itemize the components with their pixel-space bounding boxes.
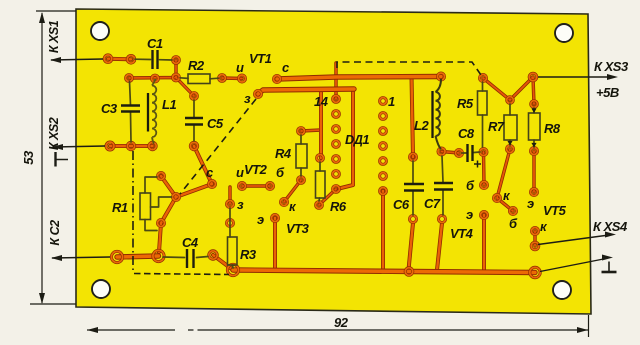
svg-text:К XS4: К XS4 (593, 219, 628, 234)
arrow K C2 (51, 255, 62, 261)
dash-dot shield boundary bottom (134, 274, 229, 275)
svg-text:VT4: VT4 (450, 226, 474, 241)
capacitor C7 (434, 183, 453, 190)
wire R5 leads (482, 82, 484, 147)
wire C4 leads (163, 257, 208, 258)
svg-text:э: э (527, 196, 534, 211)
svg-text:R4: R4 (275, 146, 292, 161)
arrow K XS2 (52, 144, 63, 150)
wire R2 leads (180, 78, 219, 79)
dimension line 92 (87, 329, 588, 331)
wire C8 leads (462, 152, 480, 153)
svg-text:R3: R3 (240, 247, 257, 262)
svg-text:R7: R7 (488, 119, 505, 134)
svg-text:К С2: К С2 (48, 220, 62, 246)
wire R6 leads (319, 162, 320, 201)
svg-text:VT1: VT1 (249, 51, 272, 66)
resistor R8 (529, 113, 541, 140)
inductor L1 (152, 79, 156, 144)
inductor L2 (436, 79, 442, 149)
svg-text:92: 92 (334, 315, 349, 330)
arrow mark R7 bottom (507, 141, 512, 146)
resistor R1 (140, 193, 151, 220)
svg-text:К XS1: К XS1 (47, 20, 61, 53)
dashed module outline top (337, 62, 481, 75)
PCB board (76, 9, 591, 314)
svg-text:R2: R2 (188, 58, 205, 73)
wire R1 leads (145, 177, 172, 231)
arrow 53 top (39, 12, 45, 23)
svg-text:э: э (466, 207, 473, 222)
svg-text:53: 53 (21, 150, 36, 165)
resistor R5 (478, 91, 488, 115)
wire R7 leads (509, 104, 511, 145)
mounting hole top-right (555, 24, 573, 42)
PADS (104, 55, 540, 278)
svg-text:R5: R5 (457, 96, 474, 111)
capacitor C8 (468, 144, 473, 162)
resistor R2 (188, 74, 210, 84)
resistor R7 (504, 115, 517, 140)
svg-text:VT2: VT2 (244, 162, 268, 177)
arrow mark R8 bottom (531, 143, 536, 148)
capacitor C3 (121, 106, 140, 112)
polarity plus C8 (474, 161, 481, 168)
wire C6 leads (412, 161, 414, 215)
svg-text:DД1: DД1 (345, 132, 369, 147)
resistor R3 (228, 237, 238, 265)
DASHED (133, 62, 481, 275)
wire C5 leads (193, 100, 195, 141)
svg-text:L2: L2 (414, 118, 429, 133)
svg-text:C6: C6 (393, 197, 410, 212)
inductor L2 core bar (431, 91, 433, 138)
svg-text:C5: C5 (207, 116, 224, 131)
TRACES (108, 59, 535, 273)
wire C3 leads (130, 82, 132, 143)
arrow ground (602, 255, 613, 261)
dimension line 53 vertical (41, 13, 43, 303)
capacitor C1 (153, 50, 158, 69)
mounting hole bottom-left (92, 280, 110, 298)
dashed jumper link з (180, 99, 256, 194)
ground bar right (602, 271, 617, 274)
wire traces thin (129, 60, 535, 246)
wire C7 leads (442, 156, 443, 215)
svg-text:+5В: +5В (596, 85, 619, 100)
wire traces mid (108, 59, 484, 272)
svg-text:C4: C4 (182, 235, 199, 250)
wire K XS4 (538, 235, 609, 245)
resistor R6 (316, 171, 326, 198)
svg-text:C7: C7 (424, 196, 441, 211)
wire R3 leads (230, 208, 233, 268)
inductor L1 core bar (147, 93, 149, 132)
mounting hole bottom-right (553, 281, 571, 299)
LEADS (130, 59, 535, 268)
ground symbol left (54, 152, 56, 167)
svg-text:К XS2: К XS2 (47, 117, 61, 150)
svg-text:R1: R1 (112, 200, 128, 215)
arrow K XS4 (605, 232, 616, 238)
arrow 53 bottom (39, 293, 45, 304)
svg-text:1: 1 (388, 94, 395, 109)
svg-text:C1: C1 (147, 36, 163, 51)
wire traces thick: collector bus, gate bus, ground bus (117, 77, 535, 273)
wire K C2 (52, 257, 110, 258)
svg-text:C3: C3 (101, 101, 118, 116)
capacitor C4 (187, 249, 194, 268)
resistor R4 (296, 144, 307, 168)
svg-text:R8: R8 (544, 121, 561, 136)
wire C1 leads (135, 58, 172, 61)
capacitor C5 (185, 118, 203, 125)
svg-text:и: и (236, 60, 244, 75)
ground symbol right (608, 262, 610, 272)
svg-text:з: з (237, 197, 244, 212)
svg-text:з: з (244, 91, 251, 106)
mounting hole top-left (91, 22, 109, 40)
svg-text:и: и (236, 165, 244, 180)
arrow 92 left (87, 327, 98, 333)
wire R8 leads (533, 108, 535, 147)
arrow mark R8 top (531, 108, 536, 113)
extension line bottom-left (30, 303, 76, 305)
arrow K XS3 (607, 74, 618, 80)
wire to ground arrow (540, 259, 606, 272)
extension line top-left (36, 10, 76, 12)
arrow 92 right (577, 327, 588, 333)
wire K XS3 +5V (538, 76, 611, 78)
capacitor C6 (404, 184, 424, 191)
arrow K XS1 (50, 57, 61, 63)
wire K XS1 (51, 59, 103, 60)
svg-text:К XS3: К XS3 (594, 59, 629, 74)
svg-text:14: 14 (314, 94, 329, 109)
svg-text:R6: R6 (330, 199, 347, 214)
wire R4 leads (300, 135, 302, 176)
dash-dot shield boundary vertical (132, 151, 134, 272)
ground stem left (56, 159, 69, 161)
svg-text:VT5: VT5 (543, 203, 567, 218)
svg-text:э: э (257, 212, 264, 227)
svg-text:C8: C8 (458, 126, 475, 141)
svg-text:L1: L1 (162, 97, 176, 112)
svg-text:VT3: VT3 (286, 221, 310, 236)
wire K XS2 (53, 146, 105, 147)
extension line 92 right (588, 315, 590, 337)
